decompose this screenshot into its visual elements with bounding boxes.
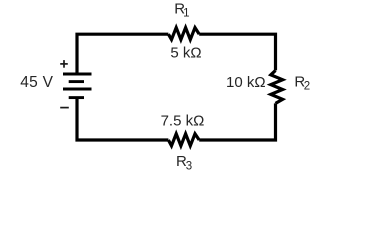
svg-text:10 kΩ: 10 kΩ (226, 74, 266, 91)
svg-text:7.5 kΩ: 7.5 kΩ (161, 113, 205, 130)
battery 45 V: plate 3 (long) (63, 88, 92, 91)
resistor R3 (7.5 kOhm, bottom) (168, 134, 199, 146)
svg-text:45 V: 45 V (20, 74, 53, 91)
resistor R1 (5 kOhm, top) (168, 28, 199, 40)
wire: top-left segment (battery + to R1) (77, 34, 168, 73)
polarity + sign (60, 60, 68, 68)
battery 45 V: plate 1 (long, positive) (63, 73, 92, 76)
wire: top-right segment (R1 to R2) (199, 34, 275, 70)
battery 45 V: plate 4 (short, negative) (69, 96, 84, 99)
wire: bottom-left segment (R3 to battery -) (77, 98, 168, 140)
battery 45 V: plate 2 (short) (69, 80, 84, 83)
resistor R2 (10 kOhm, right) (271, 70, 283, 103)
svg-text:2: 2 (304, 81, 310, 93)
wire: bottom-right segment (R2 to R3) (199, 103, 275, 140)
svg-text:3: 3 (186, 161, 192, 173)
svg-text:5 kΩ: 5 kΩ (170, 44, 201, 61)
svg-text:1: 1 (183, 8, 189, 20)
polarity - sign (60, 107, 69, 109)
